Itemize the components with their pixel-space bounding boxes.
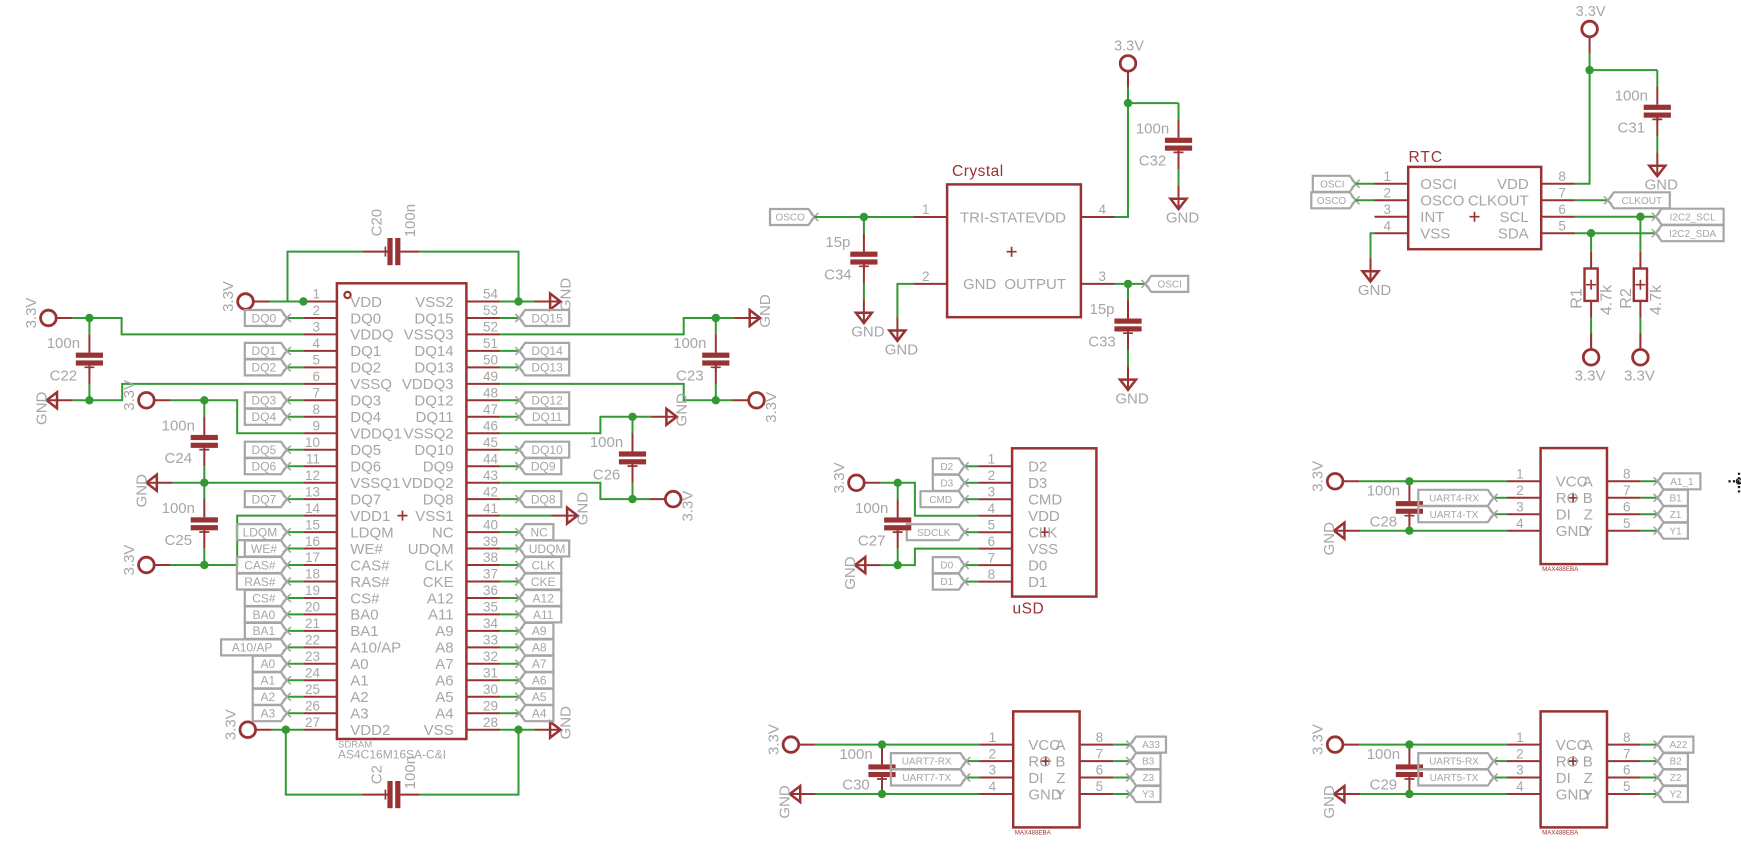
svg-text:12: 12	[305, 468, 320, 483]
svg-text:A1_1: A1_1	[1670, 477, 1694, 488]
net label D1	[933, 574, 969, 590]
junction	[1405, 740, 1413, 748]
svg-text:A8: A8	[435, 640, 453, 657]
wire	[633, 416, 651, 418]
svg-text:15p: 15p	[1089, 301, 1114, 318]
svg-text:3.3V: 3.3V	[763, 392, 780, 423]
wire	[1641, 513, 1658, 515]
svg-text:A11: A11	[533, 608, 554, 622]
net label Y3	[1126, 786, 1160, 802]
wire VDD pin8	[1575, 70, 1590, 184]
supply 3.3V	[23, 298, 72, 329]
svg-text:VSS: VSS	[1028, 541, 1058, 558]
svg-text:45: 45	[483, 435, 498, 450]
wire	[287, 317, 303, 319]
svg-text:6: 6	[1558, 202, 1566, 217]
svg-text:7: 7	[1623, 483, 1631, 498]
wire OSCO pin2	[1356, 199, 1375, 201]
wire	[1127, 87, 1129, 103]
wire	[172, 482, 204, 484]
wire	[1494, 777, 1507, 779]
ground	[34, 391, 73, 425]
wire	[287, 679, 303, 681]
junction	[299, 297, 307, 305]
wire OSCI pin1	[1356, 183, 1375, 185]
svg-text:2: 2	[989, 746, 997, 761]
svg-text:16: 16	[305, 534, 320, 549]
svg-text:A4: A4	[532, 707, 547, 721]
net label I2C2_SCL	[1652, 209, 1724, 225]
svg-text:1: 1	[922, 202, 930, 217]
supply 3.3V	[831, 462, 880, 493]
wire VCC pin1	[815, 744, 980, 746]
svg-text:GND: GND	[1321, 785, 1338, 819]
svg-text:GND: GND	[851, 324, 885, 341]
svg-text:VSS1: VSS1	[415, 508, 453, 525]
net label UART4-RX	[1418, 490, 1497, 506]
net label I2C2_SDA	[1652, 225, 1724, 241]
wire	[500, 646, 519, 648]
wire from C2	[419, 730, 519, 795]
net label DQ9	[515, 458, 561, 474]
ground	[535, 706, 575, 740]
svg-text:CLKOUT: CLKOUT	[1622, 196, 1663, 207]
svg-text:Z: Z	[1584, 770, 1593, 787]
svg-text:23: 23	[305, 649, 320, 664]
wire	[287, 581, 303, 583]
svg-text:3: 3	[312, 320, 320, 335]
svg-text:32: 32	[483, 649, 498, 664]
svg-text:VSS: VSS	[1420, 226, 1450, 243]
svg-text:D3: D3	[1028, 475, 1047, 492]
svg-text:WE#: WE#	[251, 542, 277, 556]
wire	[170, 564, 204, 566]
svg-text:8: 8	[1623, 730, 1631, 745]
net label A1	[253, 672, 291, 688]
svg-text:DQ9: DQ9	[423, 459, 454, 476]
svg-text:7: 7	[988, 550, 996, 565]
net label A5	[515, 689, 553, 705]
svg-text:A3: A3	[261, 707, 276, 721]
svg-text:UART5-TX: UART5-TX	[1430, 773, 1479, 784]
supply 3.3V	[766, 724, 815, 755]
ground	[1321, 785, 1360, 819]
svg-text:MAX488EBA: MAX488EBA	[1542, 829, 1579, 836]
svg-text:UART4-TX: UART4-TX	[1430, 510, 1479, 521]
net label UART7-RX	[891, 753, 970, 769]
svg-text:27: 27	[305, 715, 320, 730]
svg-text:MAX488EBA: MAX488EBA	[1542, 566, 1579, 573]
net label B2	[1654, 753, 1688, 769]
capacitor C32	[1136, 103, 1192, 185]
IC MAX488EBA (UART7)	[980, 711, 1114, 836]
net label A0	[253, 656, 291, 672]
svg-text:2: 2	[312, 303, 320, 318]
svg-text:3.3V: 3.3V	[1310, 461, 1327, 492]
svg-text:4: 4	[1516, 516, 1524, 531]
svg-text:DQ2: DQ2	[350, 360, 381, 377]
wire	[633, 498, 650, 500]
wire	[1641, 530, 1658, 532]
wire VDDQ1 pin9	[204, 400, 303, 433]
svg-text:DQ11: DQ11	[532, 410, 563, 424]
svg-text:2: 2	[1516, 746, 1524, 761]
svg-text:GND: GND	[133, 474, 150, 508]
wire VSSQ pin6	[89, 384, 303, 400]
svg-text:SDCLK: SDCLK	[917, 528, 951, 539]
svg-text:GND: GND	[674, 393, 691, 427]
svg-text:DQ14: DQ14	[414, 343, 453, 360]
net label CAS#	[237, 557, 291, 573]
svg-text:C34: C34	[824, 267, 852, 284]
wire VSS pin6	[898, 549, 979, 566]
supply 3.3V	[1575, 333, 1606, 384]
wire	[500, 399, 519, 401]
svg-text:A5: A5	[435, 689, 453, 706]
svg-text:A7: A7	[532, 657, 547, 671]
svg-text:LDQM: LDQM	[350, 524, 393, 541]
ground	[734, 294, 774, 328]
svg-text:A2: A2	[261, 690, 276, 704]
svg-text:8: 8	[1623, 467, 1631, 482]
svg-text:B1: B1	[1669, 493, 1682, 504]
svg-text:29: 29	[483, 699, 498, 714]
svg-text:Y: Y	[1583, 523, 1593, 540]
junction	[628, 413, 636, 421]
net label UART4-TX	[1418, 506, 1497, 522]
svg-text:37: 37	[483, 567, 498, 582]
capacitor C26	[590, 417, 646, 499]
net label SDCLK	[907, 524, 969, 540]
junction	[200, 396, 208, 404]
svg-text:OSCI: OSCI	[1320, 179, 1344, 190]
junction	[200, 479, 208, 487]
net label BA0	[245, 606, 291, 622]
svg-text:5: 5	[988, 517, 996, 532]
svg-text:CAS#: CAS#	[244, 558, 276, 572]
svg-text:A0: A0	[261, 657, 276, 671]
net label A2	[253, 689, 291, 705]
svg-text:C29: C29	[1370, 777, 1398, 794]
svg-text:MAX488EBA: MAX488EBA	[1015, 829, 1052, 836]
wire	[965, 531, 979, 533]
wire	[287, 416, 303, 418]
supply 3.3V	[121, 380, 170, 411]
svg-text:DQ13: DQ13	[531, 361, 563, 375]
wire	[287, 548, 303, 550]
supply 3.3V	[1310, 724, 1359, 755]
svg-text:A: A	[1583, 737, 1593, 754]
wire	[287, 564, 303, 566]
svg-text:BA1: BA1	[253, 624, 276, 638]
svg-text:BA1: BA1	[350, 623, 378, 640]
svg-text:17: 17	[305, 550, 320, 565]
net label OSCO	[770, 209, 818, 225]
svg-text:5: 5	[1623, 516, 1631, 531]
wire	[287, 350, 303, 352]
wire	[287, 531, 303, 533]
svg-text:20: 20	[305, 600, 320, 615]
svg-text:A9: A9	[435, 623, 453, 640]
svg-text:52: 52	[483, 320, 498, 335]
svg-text:15p: 15p	[825, 234, 850, 251]
svg-text:Y: Y	[1583, 786, 1593, 803]
pin numbers	[1516, 467, 1630, 531]
svg-text:34: 34	[483, 616, 499, 631]
net label A9	[515, 623, 553, 639]
wire	[500, 498, 519, 500]
svg-text:6: 6	[1096, 763, 1104, 778]
svg-text:5: 5	[1096, 779, 1104, 794]
IC RTC	[1375, 149, 1575, 249]
pin names	[350, 294, 453, 739]
net label RAS#	[237, 574, 291, 590]
svg-text:Z1: Z1	[1670, 510, 1682, 521]
svg-text:DQ12: DQ12	[414, 393, 453, 410]
net label DQ15	[515, 310, 569, 326]
junction	[282, 726, 290, 734]
wire	[965, 498, 979, 500]
wire	[1641, 760, 1658, 762]
svg-text:A4: A4	[435, 706, 453, 723]
svg-text:CLK: CLK	[424, 557, 453, 574]
svg-text:UART4-RX: UART4-RX	[1429, 493, 1479, 504]
svg-text:DI: DI	[1556, 770, 1571, 787]
wire VDDQ pin3	[89, 318, 303, 334]
svg-text:DQ0: DQ0	[252, 311, 277, 325]
net label UART5-TX	[1418, 770, 1497, 786]
net label DQ4	[245, 409, 291, 425]
svg-text:RO: RO	[1028, 753, 1051, 770]
svg-text:D1: D1	[1028, 574, 1047, 591]
wire GND pin4	[1360, 793, 1507, 795]
svg-text:3: 3	[1383, 202, 1391, 217]
pin 1 marker	[344, 292, 350, 298]
wire	[1641, 793, 1658, 795]
svg-text:A1: A1	[261, 674, 276, 688]
wire	[966, 760, 979, 762]
wire VCC pin1	[1359, 744, 1507, 746]
svg-text:5: 5	[312, 353, 320, 368]
supply 3.3V	[733, 392, 780, 423]
wire	[500, 449, 519, 451]
svg-text:UART7-TX: UART7-TX	[902, 773, 951, 784]
svg-text:VSSQ1: VSSQ1	[350, 475, 400, 492]
capacitor C25	[162, 483, 218, 565]
net label Y2	[1654, 786, 1688, 802]
net label CMD	[921, 491, 969, 507]
svg-text:I2C2_SCL: I2C2_SCL	[1670, 212, 1717, 223]
net label DQ14	[515, 343, 569, 359]
junction	[85, 396, 93, 404]
ground	[1358, 258, 1392, 299]
svg-text:I2C2_SDA: I2C2_SDA	[1669, 229, 1717, 240]
svg-text:C30: C30	[842, 777, 870, 794]
svg-text:100n: 100n	[402, 204, 419, 237]
svg-text:CLK: CLK	[1028, 525, 1057, 542]
wire	[287, 663, 303, 665]
svg-text:25: 25	[305, 682, 320, 697]
net label LDQM	[237, 524, 291, 540]
svg-text:DQ1: DQ1	[350, 343, 381, 360]
wire	[1590, 233, 1592, 252]
svg-text:OSCI: OSCI	[1420, 176, 1457, 193]
svg-text:GND: GND	[574, 492, 591, 525]
capacitor C2	[362, 756, 419, 808]
svg-text:NC: NC	[432, 524, 454, 541]
junction	[628, 495, 636, 503]
svg-text:D3: D3	[940, 478, 953, 489]
svg-text:DQ13: DQ13	[414, 360, 453, 377]
wire VSS2 pin54	[500, 301, 534, 303]
capacitor C31	[1615, 70, 1671, 152]
net label Z2	[1654, 770, 1688, 786]
svg-text:7: 7	[1096, 746, 1104, 761]
net label OSCI	[1141, 276, 1188, 292]
net label UDQM	[515, 541, 569, 557]
svg-text:53: 53	[483, 303, 498, 318]
svg-text:DQ14: DQ14	[531, 344, 563, 358]
svg-text:5: 5	[1623, 779, 1631, 794]
wire	[965, 581, 979, 583]
wire VSSQ2 pin46	[500, 417, 632, 434]
wire	[500, 548, 519, 550]
wire	[72, 317, 89, 319]
svg-text:DQ1: DQ1	[252, 344, 277, 358]
svg-text:4: 4	[1383, 218, 1391, 233]
pin names	[1420, 176, 1529, 242]
wire VSSQ3 pin52	[500, 318, 716, 334]
svg-text:26: 26	[305, 699, 320, 714]
wire	[1639, 318, 1641, 350]
svg-text:CKE: CKE	[531, 575, 556, 589]
wire	[500, 564, 519, 566]
pin names	[960, 209, 1066, 293]
svg-text:A7: A7	[435, 656, 453, 673]
svg-text:VDD: VDD	[1028, 508, 1060, 525]
wire	[1590, 318, 1592, 350]
svg-text:C26: C26	[593, 466, 621, 483]
pin names	[1556, 474, 1593, 540]
junction	[894, 561, 902, 569]
svg-text:A2: A2	[350, 689, 368, 706]
svg-text:A9: A9	[532, 624, 547, 638]
svg-text:D0: D0	[1028, 557, 1047, 574]
svg-text:INT: INT	[1420, 209, 1444, 226]
wire	[716, 317, 734, 319]
svg-text:C20: C20	[368, 209, 385, 237]
svg-text:DQ12: DQ12	[531, 394, 563, 408]
svg-text:3.3V: 3.3V	[831, 462, 848, 493]
wire	[1641, 744, 1658, 746]
net label DQ3	[245, 392, 291, 408]
junction	[1124, 280, 1132, 288]
supply 3.3V	[220, 281, 269, 312]
svg-text:19: 19	[305, 583, 320, 598]
net label A11	[515, 606, 561, 622]
pin numbers	[305, 287, 499, 730]
svg-text:D1: D1	[940, 577, 953, 588]
svg-text:BA0: BA0	[350, 607, 378, 624]
wire	[965, 482, 979, 484]
wire VSS pin4 to ground	[1371, 233, 1375, 258]
svg-text:13: 13	[305, 484, 320, 499]
svg-text:Z: Z	[1056, 770, 1065, 787]
supply 3.3V	[222, 709, 271, 740]
net label DQ12	[515, 392, 569, 408]
wire	[287, 696, 303, 698]
svg-text:B2: B2	[1669, 757, 1682, 768]
wire C20 left	[288, 252, 363, 302]
wire	[170, 399, 204, 401]
wire	[1494, 513, 1507, 515]
net label A1_1	[1654, 473, 1701, 489]
svg-text:100n: 100n	[47, 335, 80, 352]
svg-text:VDD2: VDD2	[350, 722, 390, 739]
svg-text:OSCO: OSCO	[1317, 196, 1347, 207]
IC MAX488EBA (UART5)	[1507, 711, 1641, 836]
svg-text:8: 8	[312, 402, 320, 417]
svg-text:3.3V: 3.3V	[1575, 367, 1606, 384]
wire	[500, 366, 519, 368]
svg-text:11: 11	[306, 451, 320, 466]
net label DQ11	[515, 409, 569, 425]
svg-text:R2: R2	[1618, 288, 1635, 309]
svg-text:Y1: Y1	[1669, 526, 1682, 537]
svg-text:18: 18	[305, 567, 320, 582]
svg-text:Z3: Z3	[1142, 773, 1154, 784]
supply 3.3V	[121, 545, 170, 576]
svg-text:54: 54	[483, 287, 499, 302]
svg-text:100n: 100n	[855, 500, 888, 517]
junction	[85, 314, 93, 322]
wire	[500, 465, 519, 467]
svg-text:VDD: VDD	[1497, 176, 1529, 193]
wire	[287, 646, 303, 648]
capacitor C23	[673, 318, 729, 400]
wire	[500, 630, 519, 632]
svg-text:UART7-RX: UART7-RX	[902, 757, 952, 768]
wire	[1641, 480, 1658, 482]
svg-text:VSS: VSS	[424, 722, 454, 739]
wire	[287, 449, 303, 451]
net label WE#	[245, 541, 291, 557]
svg-text:SCL: SCL	[1500, 209, 1529, 226]
net label Y1	[1654, 523, 1688, 539]
svg-text:100n: 100n	[1615, 87, 1648, 104]
svg-text:6: 6	[1623, 499, 1631, 514]
IC MAX488EBA (UART4)	[1507, 448, 1641, 573]
supply 3.3V	[1114, 38, 1144, 87]
wire	[500, 416, 519, 418]
svg-text:A12: A12	[533, 591, 555, 605]
svg-text:44: 44	[483, 451, 499, 466]
svg-text:OSCI: OSCI	[1157, 280, 1181, 291]
wire VDD1 pin14	[204, 516, 303, 565]
svg-text:100n: 100n	[1367, 483, 1400, 500]
svg-text:2: 2	[1516, 483, 1524, 498]
svg-text:21: 21	[305, 616, 320, 631]
svg-text:D2: D2	[940, 462, 953, 473]
svg-text:C25: C25	[165, 532, 193, 549]
svg-text:7: 7	[1558, 186, 1566, 201]
wire	[1494, 497, 1507, 499]
svg-text:100n: 100n	[402, 756, 419, 789]
capacitor C30	[839, 745, 895, 794]
svg-text:14: 14	[305, 501, 321, 516]
wire	[965, 465, 979, 467]
svg-text:Z: Z	[1584, 507, 1593, 524]
